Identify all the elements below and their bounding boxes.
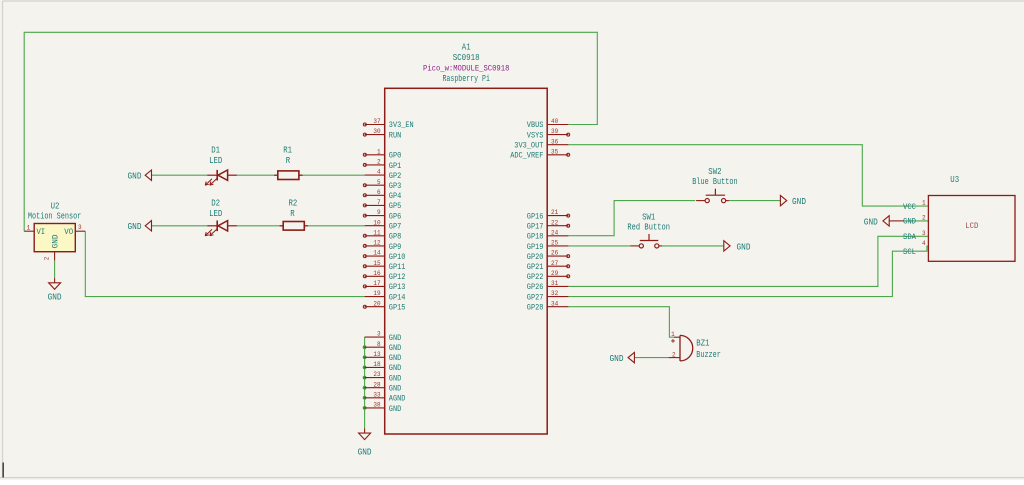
svg-text:17: 17 (373, 280, 380, 287)
svg-text:26: 26 (551, 250, 558, 257)
svg-text:34: 34 (551, 300, 558, 307)
svg-text:1: 1 (377, 148, 381, 155)
svg-text:6: 6 (377, 189, 381, 196)
svg-text:14: 14 (373, 250, 380, 257)
A1 pin 23 GND (365, 377, 385, 379)
svg-text:33: 33 (373, 391, 380, 398)
svg-text:20: 20 (373, 300, 380, 307)
svg-text:31: 31 (551, 280, 558, 287)
svg-text:15: 15 (373, 260, 380, 267)
svg-text:GP12: GP12 (389, 273, 406, 282)
svg-text:3: 3 (922, 230, 926, 237)
svg-text:2: 2 (377, 159, 381, 166)
svg-text:SW1: SW1 (642, 213, 655, 223)
svg-text:LCD: LCD (965, 222, 978, 231)
svg-text:GP9: GP9 (389, 243, 402, 252)
switch SW2 Blue Button (692, 167, 737, 203)
svg-text:1: 1 (922, 200, 926, 207)
svg-text:GND: GND (51, 234, 60, 248)
svg-text:9: 9 (377, 209, 381, 216)
svg-text:Motion Sensor: Motion Sensor (28, 211, 81, 221)
A1 pin 28 GND (365, 387, 385, 389)
A1 pin 18 GND (365, 366, 385, 368)
svg-text:LED: LED (209, 156, 222, 166)
A1 pin 25 GP19 (547, 245, 568, 247)
svg-text:3: 3 (78, 224, 82, 231)
svg-text:30: 30 (373, 128, 380, 135)
svg-text:1: 1 (27, 225, 31, 232)
wire 3V3_OUT (pin 36) to LCD VCC (568, 145, 928, 206)
junction on ground rail row 23 (363, 355, 367, 359)
A1 pin 7 GP5 (365, 204, 385, 206)
wire GND label to D1 cathode (152, 174, 208, 176)
svg-text:Blue Button: Blue Button (692, 177, 737, 187)
A1 pin 30 RUN (365, 134, 385, 136)
A1 pin 35 ADC_VREF (547, 154, 568, 156)
svg-text:4: 4 (377, 169, 381, 176)
net label GND (LCD) (864, 216, 889, 228)
A1 pin 31 GP26 (547, 285, 568, 287)
svg-text:19: 19 (373, 290, 380, 297)
svg-text:28: 28 (373, 381, 380, 388)
wire LCD GND pin stub (889, 220, 928, 222)
svg-text:RUN: RUN (389, 131, 402, 140)
svg-text:U3: U3 (950, 175, 959, 185)
svg-text:2: 2 (43, 257, 50, 261)
svg-text:D2: D2 (211, 198, 220, 208)
net label GND (SW2) (780, 195, 806, 207)
wire SW1 to GND label (662, 245, 724, 247)
svg-text:GP0: GP0 (389, 152, 402, 161)
svg-text:VSYS: VSYS (527, 131, 544, 140)
svg-text:GP17: GP17 (527, 223, 544, 232)
diode D2 LED (205, 198, 237, 236)
wire VBUS rail: pin 40 to U2 VI around sheet top (24, 32, 597, 231)
A1 pin 40 VBUS (547, 124, 568, 126)
svg-text:SW2: SW2 (708, 167, 721, 177)
A1 pin 12 GP9 (365, 245, 385, 247)
sheet frame corner tick (2, 463, 4, 478)
svg-text:GND: GND (48, 293, 62, 303)
svg-text:GP27: GP27 (527, 293, 544, 302)
junction on ground rail row 25 (363, 376, 367, 380)
svg-text:18: 18 (373, 361, 380, 368)
svg-text:GP14: GP14 (389, 293, 406, 302)
svg-text:12: 12 (373, 240, 380, 247)
A1 pin 5 GP3 (365, 184, 385, 186)
svg-text:35: 35 (551, 148, 558, 155)
LED D2 (207, 225, 217, 227)
svg-text:GP5: GP5 (389, 202, 402, 211)
A1 pin 29 GP22 (547, 275, 568, 277)
svg-text:GP2: GP2 (389, 172, 402, 181)
svg-text:AGND: AGND (389, 395, 406, 404)
svg-text:5: 5 (377, 179, 381, 186)
A1 pin 13 GND (365, 356, 385, 358)
A1 pin 9 GP6 (365, 215, 385, 217)
svg-text:GND: GND (389, 364, 402, 373)
A1 pin 19 GP14 (365, 296, 385, 298)
svg-text:GND: GND (389, 385, 402, 394)
wire D2 anode to R2 (237, 225, 283, 227)
junction on ground rail row 28 (363, 406, 367, 410)
A1 pin 14 GP10 (365, 255, 385, 257)
svg-text:24: 24 (551, 229, 558, 236)
A1 pin 24 GP18 (547, 235, 568, 237)
A1 pin 32 GP27 (547, 296, 568, 298)
svg-text:3V3_EN: 3V3_EN (389, 121, 414, 130)
resistor R2 (280, 198, 308, 230)
A1 pin 20 GP15 (365, 306, 385, 308)
svg-text:GP16: GP16 (527, 212, 544, 221)
svg-text:25: 25 (551, 240, 558, 247)
svg-text:7: 7 (377, 199, 381, 206)
wire GP26 (pin 31) to LCD SDA (568, 236, 928, 286)
svg-text:VI: VI (37, 228, 46, 237)
A1 pin 36 3V3_OUT (547, 144, 568, 146)
A1 pin 11 GP8 (365, 235, 385, 237)
svg-text:GP20: GP20 (527, 253, 544, 262)
wire GP18 (pin 24) to SW2 (568, 201, 695, 236)
A1 pin 21 GP16 (547, 215, 568, 217)
A1 pin 4 GP2 (365, 174, 385, 176)
svg-text:22: 22 (551, 219, 558, 226)
svg-text:GND: GND (128, 172, 142, 182)
junction on ground rail row 27 (363, 396, 367, 400)
svg-text:Pico_w:MODULE_SC0918: Pico_w:MODULE_SC0918 (423, 64, 509, 74)
svg-text:38: 38 (373, 402, 380, 409)
svg-text:GND: GND (737, 242, 751, 252)
BZ1 pin 2 (669, 357, 680, 359)
svg-text:GP28: GP28 (527, 304, 544, 313)
wire GND label to D2 cathode (152, 225, 208, 227)
wire U2 VO to GP14 (pin 19) (85, 231, 364, 296)
svg-text:3V3_OUT: 3V3_OUT (514, 142, 543, 151)
svg-text:VO: VO (64, 228, 73, 237)
net label GND (D1 row) (128, 170, 152, 182)
svg-text:2: 2 (672, 351, 676, 358)
svg-text:GP21: GP21 (527, 263, 544, 272)
sheet frame top edge (3, 0, 1024, 2)
svg-text:Red Button: Red Button (627, 222, 670, 232)
U2 pin 1 (24, 230, 34, 232)
svg-text:40: 40 (551, 118, 558, 125)
svg-text:39: 39 (551, 128, 558, 135)
svg-text:R: R (286, 156, 291, 166)
wire SW2 to GND label (728, 200, 780, 202)
wire D1 anode to R1 (237, 174, 278, 176)
U2 pin 3 (75, 230, 85, 232)
svg-text:GND: GND (389, 354, 402, 363)
svg-text:GP4: GP4 (389, 192, 402, 201)
A1 pin 6 GP4 (365, 194, 385, 196)
svg-text:SCL: SCL (903, 248, 916, 257)
ground GND (IC bottom) (358, 428, 372, 457)
A1 pin 26 GP20 (547, 255, 568, 257)
svg-text:GP3: GP3 (389, 182, 402, 191)
wire GP28 (pin 34) to buzzer BZ1 pin 1 (568, 307, 674, 338)
svg-text:GP22: GP22 (527, 273, 544, 282)
A1 pin 10 GP7 (365, 225, 385, 227)
svg-text:GP26: GP26 (527, 283, 544, 292)
diode D1 LED (205, 146, 237, 186)
svg-text:GND: GND (389, 344, 402, 353)
svg-text:3: 3 (377, 331, 381, 338)
svg-text:GP8: GP8 (389, 233, 402, 242)
net label GND (D2 row) (128, 221, 152, 233)
svg-text:27: 27 (551, 260, 558, 267)
LED D1 (207, 174, 217, 176)
U2 pin 2 (54, 252, 56, 261)
svg-text:GP1: GP1 (389, 162, 402, 171)
svg-text:10: 10 (373, 219, 380, 226)
resistor R1 (274, 146, 302, 180)
svg-text:GP11: GP11 (389, 263, 406, 272)
svg-text:GP6: GP6 (389, 212, 402, 221)
svg-text:Raspberry Pi: Raspberry Pi (442, 74, 490, 84)
svg-text:13: 13 (373, 351, 380, 358)
wire U2 pin 2 to ground (54, 261, 56, 279)
svg-text:GND: GND (389, 334, 402, 343)
svg-text:A1: A1 (462, 42, 471, 52)
wire GP19 (pin 25) to SW1 (568, 245, 630, 247)
svg-text:GP13: GP13 (389, 283, 406, 292)
svg-text:21: 21 (551, 209, 558, 216)
svg-text:GP19: GP19 (527, 243, 544, 252)
junction on ground rail row 24 (363, 366, 367, 370)
svg-text:16: 16 (373, 270, 380, 277)
svg-text:R2: R2 (289, 198, 298, 208)
wire buzzer BZ1 pin 2 to GND label (634, 357, 668, 359)
svg-text:GND: GND (792, 197, 806, 207)
svg-text:GP7: GP7 (389, 223, 402, 232)
svg-text:GND: GND (358, 447, 372, 457)
A1 pin 33 AGND (365, 397, 385, 399)
net label GND (SW1) (724, 241, 751, 253)
svg-text:R1: R1 (283, 146, 292, 156)
svg-text:2: 2 (922, 215, 926, 222)
svg-text:23: 23 (373, 371, 380, 378)
wire R2 to GP7 (pin 10) (304, 225, 364, 227)
A1 pin 27 GP21 (547, 265, 568, 267)
sensor U2 Motion Sensor (24, 202, 85, 261)
buzzer BZ1 (669, 331, 721, 361)
svg-text:GND: GND (903, 218, 916, 227)
wire IC ground rail (pins 3,8,13,18,23,28,33,38) (364, 337, 366, 428)
BZ1 pin 1 (674, 336, 680, 338)
A1 pin 15 GP11 (365, 265, 385, 267)
svg-text:GP10: GP10 (389, 253, 406, 262)
svg-text:32: 32 (551, 290, 558, 297)
svg-text:D1: D1 (211, 146, 220, 156)
svg-text:1: 1 (671, 331, 675, 338)
A1 pin 2 GP1 (365, 164, 385, 166)
A1 pin 38 GND (365, 407, 385, 409)
A1 pin 8 GND (365, 346, 385, 348)
net label GND (BZ1) (610, 352, 635, 364)
svg-text:SDA: SDA (903, 233, 916, 242)
svg-text:GP18: GP18 (527, 233, 544, 242)
switch SW1 Red Button (627, 213, 670, 248)
display U3 LCD (903, 175, 1015, 261)
svg-text:29: 29 (551, 270, 558, 277)
svg-text:11: 11 (373, 229, 380, 236)
module A1 Raspberry Pi Pico SC0918 (363, 42, 569, 434)
svg-text:8: 8 (377, 341, 381, 348)
svg-text:U2: U2 (51, 202, 60, 212)
svg-text:LED: LED (209, 209, 222, 219)
svg-text:4: 4 (922, 240, 926, 247)
junction on ground rail row 26 (363, 386, 367, 390)
A1 pin 3 GND (365, 336, 385, 338)
svg-text:VBUS: VBUS (527, 121, 544, 130)
A1 pin 39 VSYS (547, 134, 568, 136)
svg-text:VCC: VCC (903, 203, 916, 212)
A1 pin 34 GP28 (547, 306, 568, 308)
svg-text:GP15: GP15 (389, 304, 406, 313)
svg-text:GND: GND (128, 222, 142, 232)
svg-text:36: 36 (551, 138, 558, 145)
ground GND (U2) (48, 278, 62, 303)
svg-text:GND: GND (389, 405, 402, 414)
svg-text:R: R (290, 209, 295, 219)
svg-text:BZ1: BZ1 (696, 339, 709, 349)
svg-text:37: 37 (373, 118, 380, 125)
A1 pin 22 GP17 (547, 225, 568, 227)
svg-text:GND: GND (864, 217, 878, 227)
wire GP27 (pin 32) to LCD SCL (568, 246, 928, 296)
sheet frame left edge (2, 1, 4, 478)
junction on ground rail row 22 (363, 345, 367, 349)
svg-text:GND: GND (389, 374, 402, 383)
svg-text:ADC_VREF: ADC_VREF (510, 152, 543, 161)
svg-text:Buzzer: Buzzer (696, 350, 721, 360)
A1 pin 1 GP0 (365, 154, 385, 156)
A1 pin 16 GP12 (365, 275, 385, 277)
A1 pin 37 3V3_EN (365, 124, 385, 126)
svg-text:SC0918: SC0918 (453, 53, 480, 63)
wire R1 to GP2 (pin 4) (299, 174, 365, 176)
A1 pin 17 GP13 (365, 285, 385, 287)
svg-text:GND: GND (610, 354, 624, 364)
sheet frame bottom edge (0, 477, 1024, 479)
